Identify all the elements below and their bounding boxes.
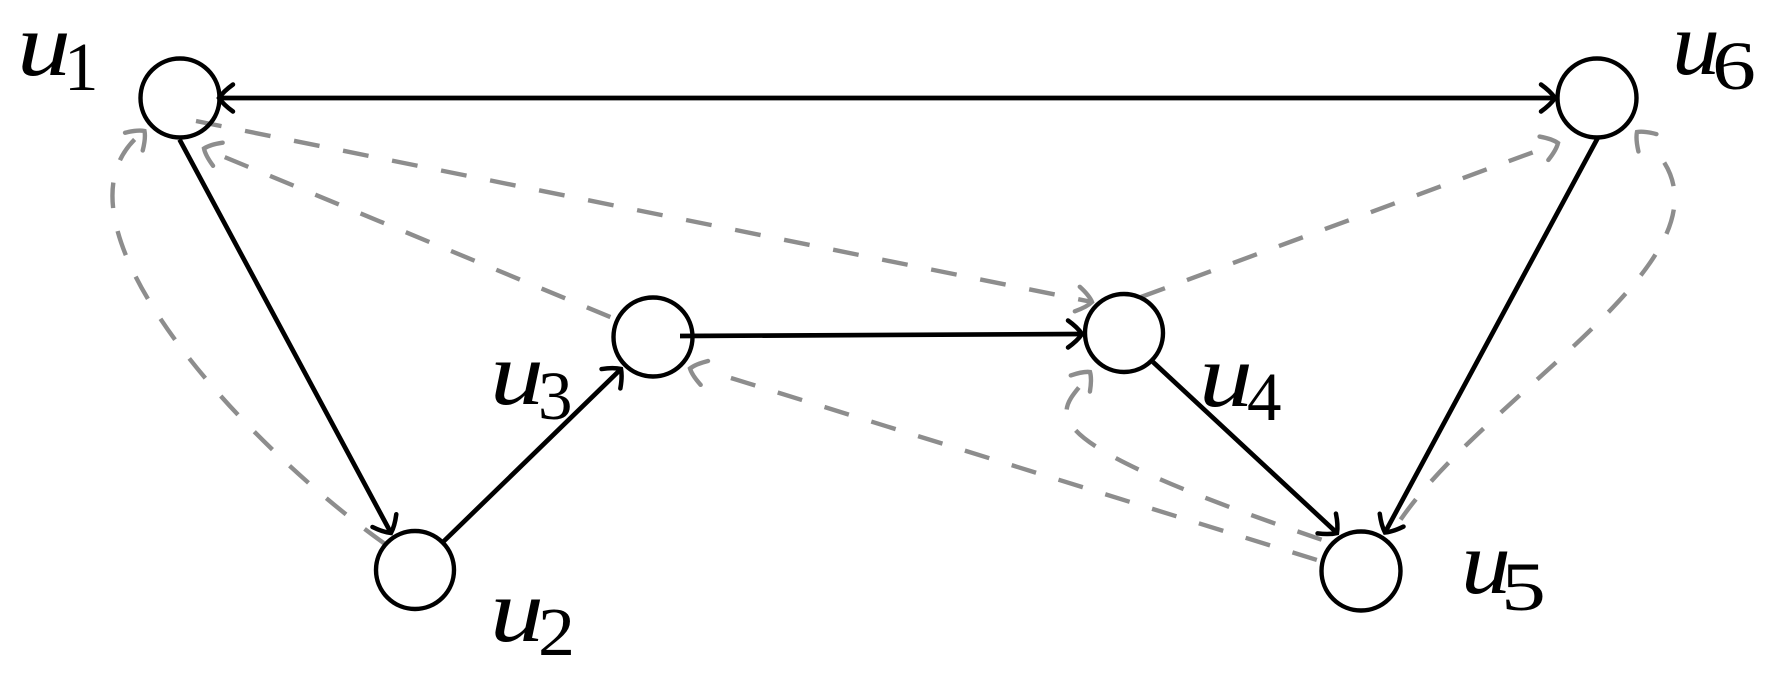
node u2 [376,531,454,609]
arrowhead of dashed edge u1->u4 [1075,287,1095,314]
svg-text:u: u [490,562,544,661]
arrowhead of dashed edge u5->u6 [1628,123,1656,151]
arrowhead into u3 [602,359,631,388]
arrowhead into u4 [1068,321,1082,348]
dashed edge u5->u6 [1388,146,1675,540]
arrowhead of dashed edge u4->u6 [1540,131,1563,160]
arrowhead of dashed edge u5->u3 [686,357,708,385]
svg-text:5: 5 [1501,549,1546,625]
svg-text:4: 4 [1247,359,1282,435]
solid edge u3->u4 [680,334,1082,336]
solid edge u4->u5 [1153,362,1337,533]
arrowhead of dashed edge u3->u1 [199,137,222,166]
dashed edge u2->u1 [112,137,385,544]
solid edge u6->u5 [1385,138,1598,533]
node u3 [614,298,693,377]
dashed edge u5->u4 [1067,383,1333,544]
dashed edge u1->u4 [196,121,1092,302]
dashed edge u5->u3 [722,375,1324,562]
arrowhead into u6 [1541,85,1555,112]
arrowhead into u5 from u6 [1373,514,1403,539]
arrowhead into u2 [372,514,402,539]
svg-text:2: 2 [538,594,575,670]
node u6 [1558,59,1637,138]
node u1 [141,59,220,138]
solid edge u1->u2 [180,140,392,534]
svg-text:6: 6 [1712,28,1756,104]
solid edge u2->u3 [443,369,621,542]
dashed edge u3->u1 [215,153,615,319]
arrowhead of dashed edge u5->u4 [1071,364,1100,392]
arrowhead into u1 [219,85,233,112]
svg-text:u: u [490,325,544,424]
arrowhead of dashed edge u2->u1 [125,122,153,150]
node u4 [1085,294,1163,372]
solid edge u1<->u6 [219,96,1555,101]
svg-text:1: 1 [64,29,99,105]
node u5 [1322,532,1401,611]
svg-text:3: 3 [538,358,573,434]
arrowhead into u5 from u4 [1318,514,1347,543]
dashed edge u4->u6 [1141,147,1547,297]
svg-text:u: u [1199,327,1253,426]
svg-text:u: u [17,0,71,95]
